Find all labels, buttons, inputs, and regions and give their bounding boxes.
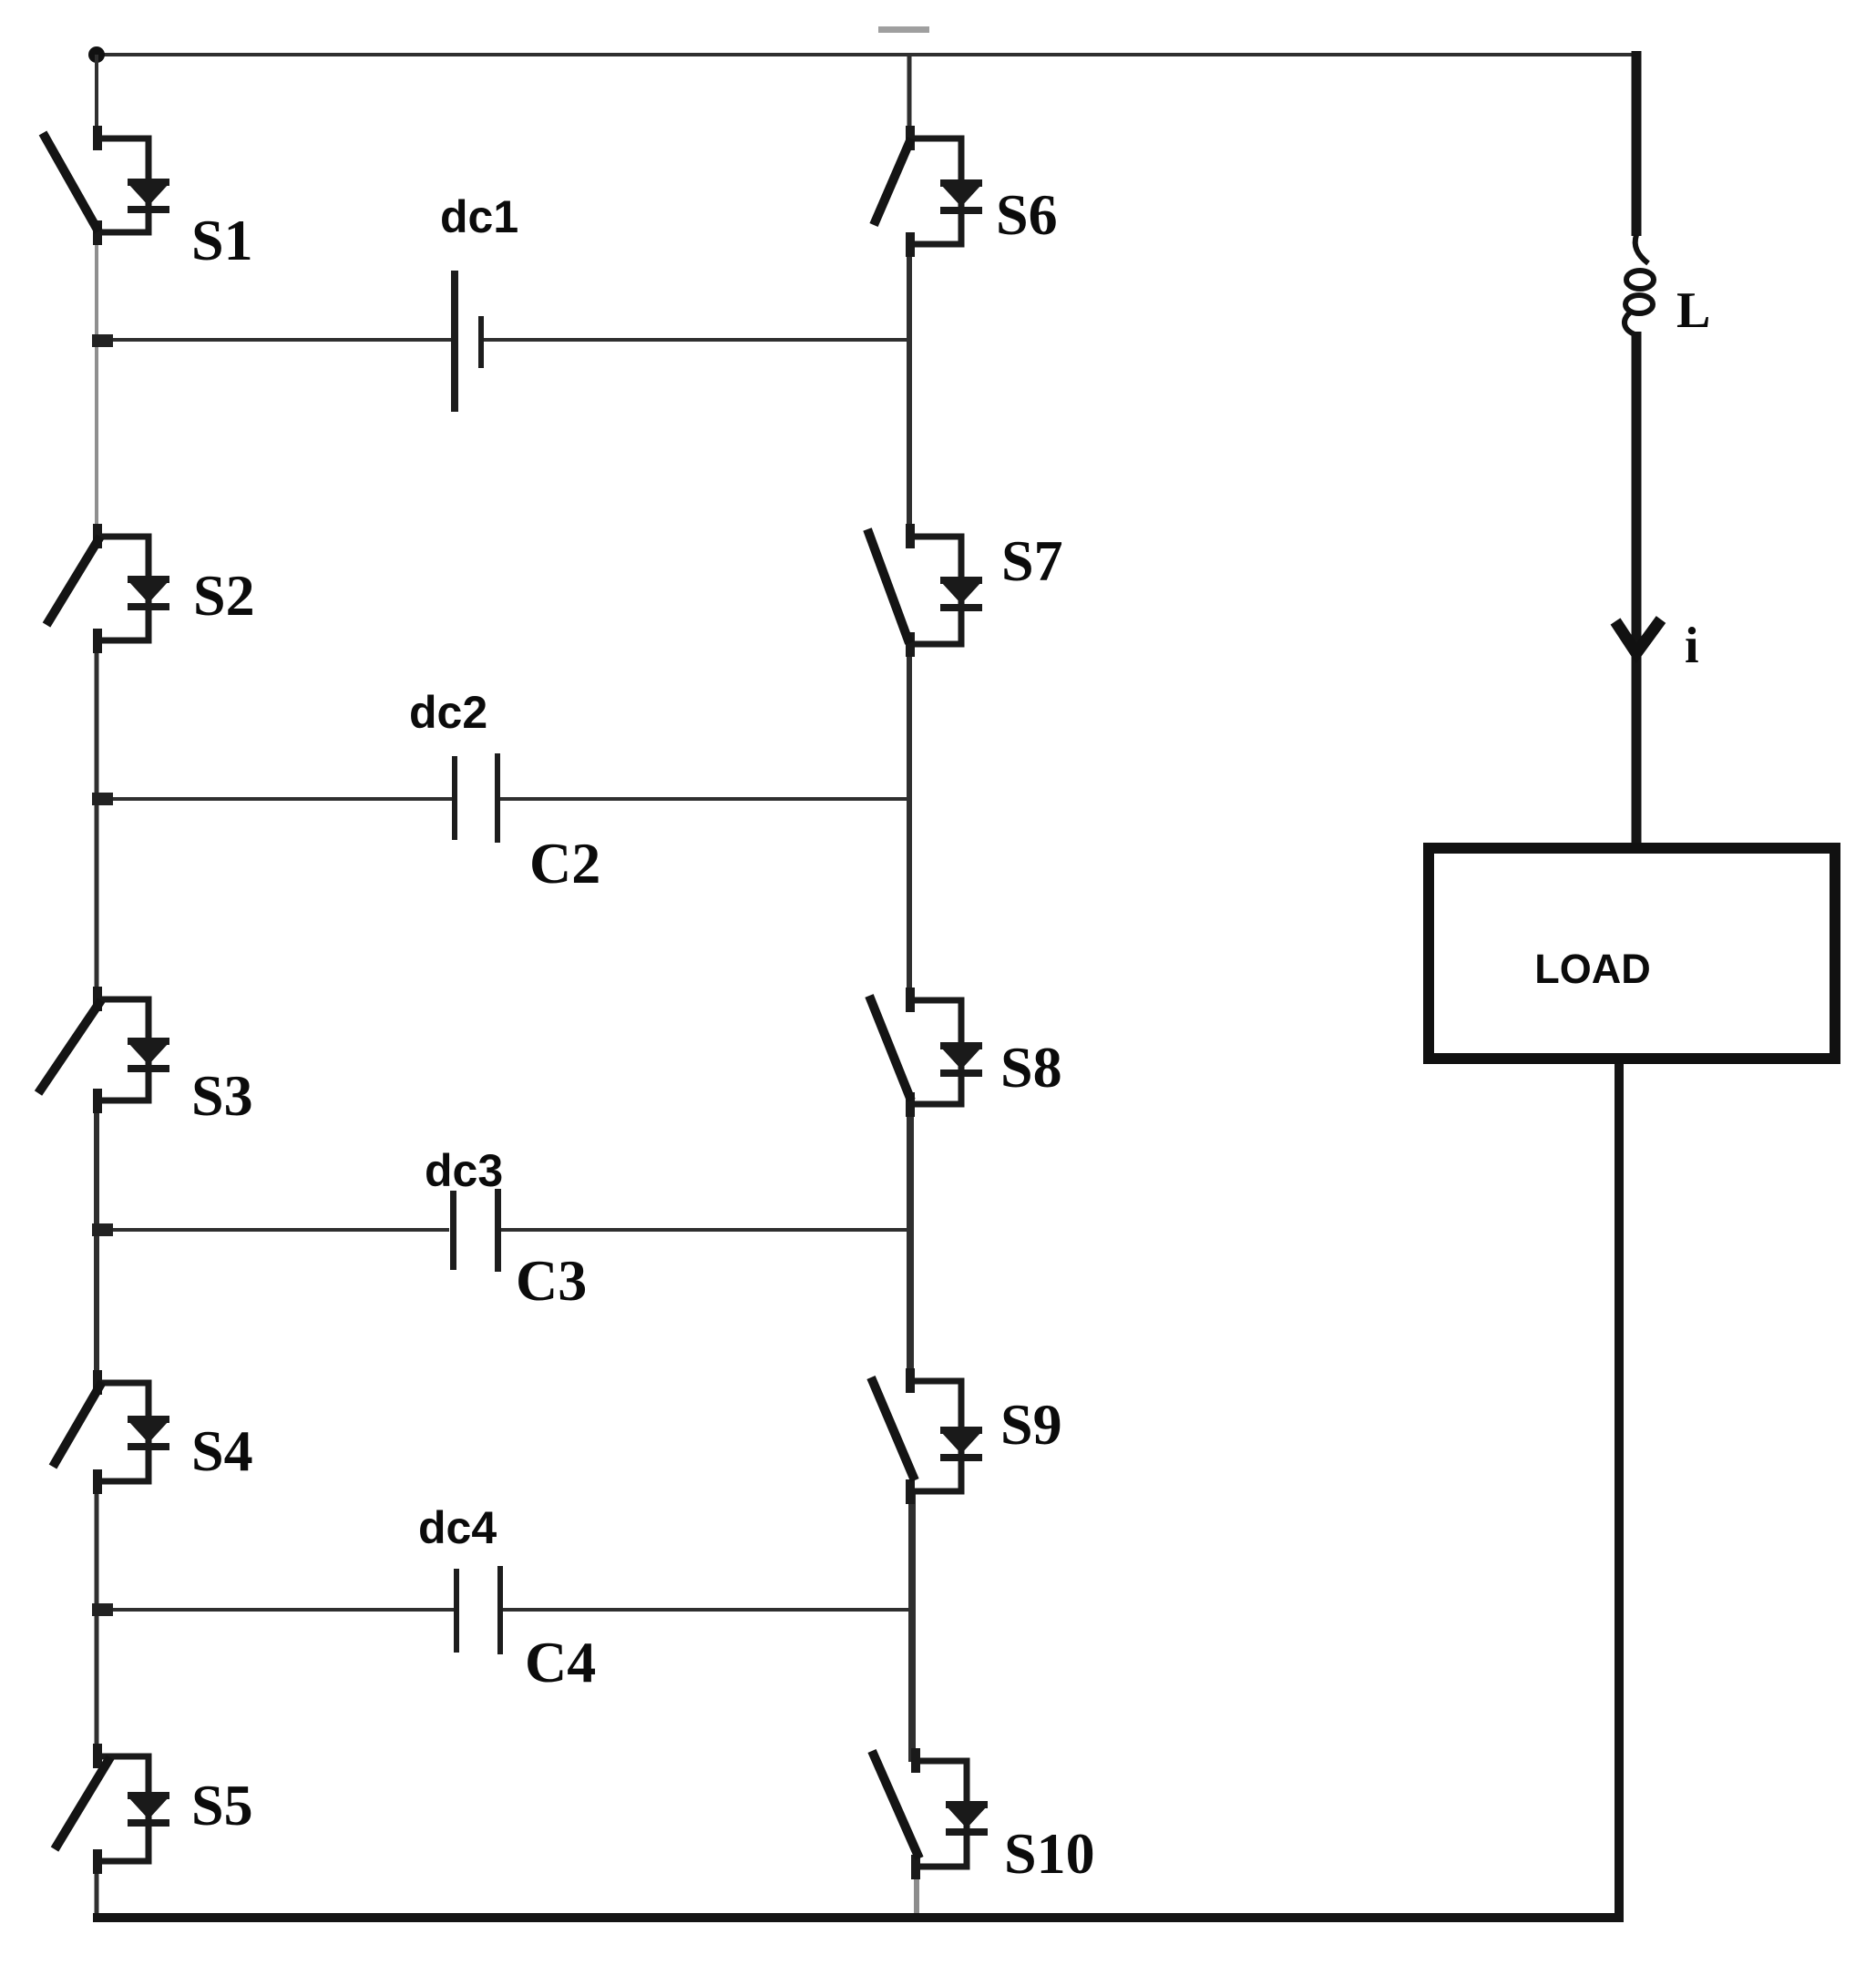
label S7 xyxy=(1001,528,1063,593)
load box xyxy=(1429,848,1835,1059)
svg-text:i: i xyxy=(1685,618,1699,674)
wire left bus seg3 xyxy=(95,639,99,1000)
svg-text:S4: S4 xyxy=(191,1418,253,1483)
switch S7 xyxy=(867,524,982,657)
svg-text:S9: S9 xyxy=(1000,1392,1062,1457)
label i xyxy=(1685,618,1699,674)
svg-text:LOAD: LOAD xyxy=(1534,946,1651,992)
wire top artifact dash xyxy=(878,26,929,33)
label C2 xyxy=(529,831,600,896)
switch S5 xyxy=(55,1744,169,1874)
inductor L xyxy=(1625,235,1654,334)
svg-text:S6: S6 xyxy=(996,182,1058,247)
label L xyxy=(1676,282,1710,339)
battery dc1 xyxy=(451,271,484,412)
node dc2 left junction xyxy=(92,793,113,805)
svg-text:S3: S3 xyxy=(191,1063,253,1128)
wire dc4 left xyxy=(95,1608,455,1612)
wire dc3 right xyxy=(501,1228,910,1232)
wire left bus seg4 xyxy=(94,1099,99,1384)
capacitor dc3 xyxy=(450,1189,501,1272)
wire middle bus seg2 xyxy=(907,242,912,537)
svg-text:C3: C3 xyxy=(516,1248,587,1313)
switch S9 xyxy=(871,1368,982,1504)
wire left bus seg6 xyxy=(95,1859,99,1919)
svg-text:S1: S1 xyxy=(191,208,253,272)
node dc1 left junction xyxy=(92,334,113,347)
label S5 xyxy=(191,1773,253,1837)
wire dc3 left xyxy=(95,1228,449,1232)
label dc2 xyxy=(409,687,487,738)
label S4 xyxy=(191,1418,253,1483)
svg-text:S7: S7 xyxy=(1001,528,1063,593)
label dc4 xyxy=(418,1502,497,1553)
label dc1 xyxy=(440,191,518,242)
label C3 xyxy=(516,1248,587,1313)
label S1 xyxy=(191,208,253,272)
label C4 xyxy=(525,1630,596,1694)
label dc3 xyxy=(425,1145,503,1196)
node top-left junction xyxy=(88,46,105,63)
label S6 xyxy=(996,182,1058,247)
node dc3 left junction xyxy=(92,1223,113,1236)
switch S2 xyxy=(46,524,169,653)
switch S3 xyxy=(38,987,169,1113)
capacitor dc2 xyxy=(452,753,500,843)
switch S6 xyxy=(874,126,982,257)
wire dc2 right xyxy=(500,797,909,801)
svg-text:S2: S2 xyxy=(193,563,255,628)
wire middle bus seg4 xyxy=(907,1102,914,1382)
label S2 xyxy=(193,563,255,628)
wire dc1 left xyxy=(95,338,452,342)
svg-text:S8: S8 xyxy=(1000,1035,1062,1100)
node dc4 left junction xyxy=(92,1603,113,1616)
wire middle bus seg5 xyxy=(908,1489,916,1762)
wire middle bus seg6 xyxy=(914,1865,919,1919)
wire right bus lower xyxy=(1615,1064,1624,1918)
wire middle bus seg1 xyxy=(907,55,912,139)
svg-text:dc3: dc3 xyxy=(425,1145,503,1196)
wire dc1 right xyxy=(484,338,909,342)
wire right bus mid xyxy=(1632,332,1642,843)
wire top bus xyxy=(93,53,1640,56)
svg-text:dc4: dc4 xyxy=(418,1502,497,1553)
switch S8 xyxy=(869,988,982,1117)
svg-text:dc1: dc1 xyxy=(440,191,518,242)
svg-text:S5: S5 xyxy=(191,1773,253,1837)
wire bottom bus xyxy=(93,1913,1624,1922)
wire middle bus seg3 xyxy=(907,642,912,1001)
label LOAD xyxy=(1534,946,1651,992)
label S9 xyxy=(1000,1392,1062,1457)
capacitor dc4 xyxy=(454,1566,503,1654)
arrow current i xyxy=(1615,619,1661,653)
svg-text:L: L xyxy=(1676,282,1710,339)
svg-text:S10: S10 xyxy=(1004,1821,1095,1886)
wire dc4 right xyxy=(503,1608,912,1612)
switch S1 xyxy=(43,126,169,245)
svg-text:dc2: dc2 xyxy=(409,687,487,738)
label S3 xyxy=(191,1063,253,1128)
switch S4 xyxy=(53,1370,169,1494)
switch S10 xyxy=(872,1748,988,1879)
wire left bus seg1 xyxy=(95,55,98,139)
label S8 xyxy=(1000,1035,1062,1100)
wire left bus seg2 xyxy=(95,230,98,537)
label S10 xyxy=(1004,1821,1095,1886)
svg-text:C2: C2 xyxy=(529,831,600,896)
wire right bus upper xyxy=(1632,51,1642,236)
svg-text:C4: C4 xyxy=(525,1630,596,1694)
wire left bus seg5 xyxy=(95,1479,99,1757)
wire dc2 left xyxy=(95,797,453,801)
